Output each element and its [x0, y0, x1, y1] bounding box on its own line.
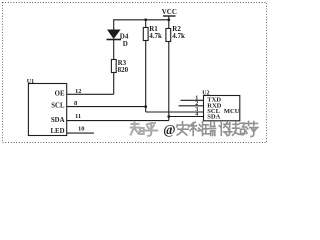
svg-text:LED: LED [51, 128, 65, 135]
svg-text:11: 11 [75, 113, 81, 120]
svg-text:4.7k: 4.7k [172, 32, 185, 40]
wire SDA branch to U2 pin4 [169, 116, 204, 118]
wire rail to diode [113, 19, 115, 29]
wire SCL jog to U2 pin3 [146, 111, 204, 113]
IC U1 [27, 79, 67, 136]
ke [190, 122, 203, 136]
junction SDA-R2 [167, 115, 170, 118]
svg-text:OE: OE [55, 90, 65, 97]
wire diode to R3 [113, 40, 115, 60]
junction rail-R1 [144, 18, 147, 21]
svg-text:820: 820 [118, 66, 129, 74]
svg-text:4.7k: 4.7k [149, 32, 162, 40]
chao [233, 122, 246, 135]
zhi [131, 123, 144, 135]
wire R3 to OE line [113, 73, 115, 95]
svg-text:SCL: SCL [51, 103, 65, 110]
wire R1 to SCL [145, 41, 147, 113]
an [177, 122, 189, 135]
svg-text:4: 4 [195, 112, 198, 118]
wire R2 to SDA [168, 42, 170, 121]
hu [145, 123, 158, 136]
svg-text:SDA: SDA [51, 117, 65, 124]
wire U1 pin12 OE to R3 [67, 93, 114, 95]
junction rail-VCC [167, 18, 170, 21]
svg-text:MCU: MCU [224, 108, 240, 115]
junction SCL-R1 [144, 105, 147, 108]
power VCC [162, 8, 177, 28]
IC U2 MCU [202, 91, 240, 121]
wire U2 pin2 stub [179, 105, 204, 107]
jiang [219, 122, 232, 136]
svg-text:@: @ [163, 122, 175, 137]
svg-text:10: 10 [78, 126, 85, 133]
svg-text:VCC: VCC [162, 8, 177, 16]
wire U1 pin10 LED stub [67, 132, 94, 134]
diode D4 [107, 30, 129, 48]
svg-text:SDA: SDA [207, 114, 220, 121]
wire U1 pin11 SDA [67, 120, 169, 122]
wire VCC rail [114, 19, 169, 21]
resistor R1 [143, 20, 162, 41]
wire U1 pin8 SCL [67, 106, 146, 108]
wire U2 pin1 stub [181, 99, 204, 101]
rui [203, 122, 216, 135]
ping [246, 121, 258, 136]
resistor R2 [166, 25, 185, 42]
svg-text:D: D [123, 40, 128, 48]
resistor R3 [111, 59, 128, 74]
watermark 知乎 @安科瑞 将超萍 [131, 123, 158, 136]
